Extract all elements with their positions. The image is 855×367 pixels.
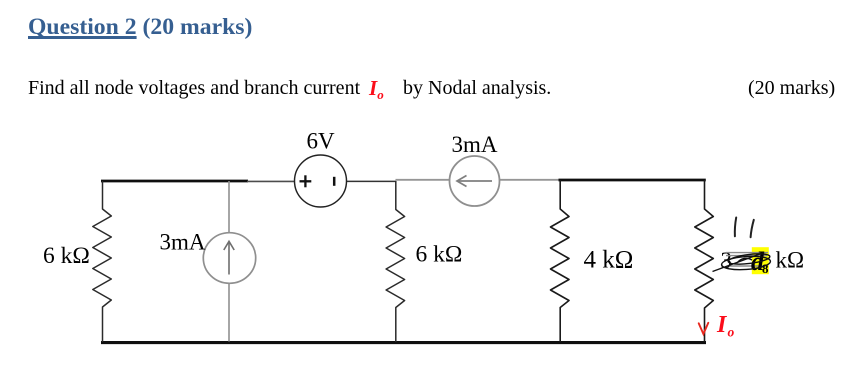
svg-text:6 kΩ: 6 kΩ — [43, 243, 90, 269]
svg-text:kΩ: kΩ — [776, 248, 805, 273]
wire: 6V source to node at middle resistor — [346, 180, 396, 182]
voltage source V1 6V — [295, 155, 347, 207]
svg-text:4 kΩ: 4 kΩ — [584, 247, 634, 274]
resistor R-mid 6k: middle branch — [386, 181, 405, 342]
red arrow head of Io — [699, 323, 709, 334]
tick mark 2 (hand drawn) — [751, 220, 754, 237]
gray strike lines — [726, 253, 768, 266]
svg-text:3mA: 3mA — [160, 230, 206, 255]
current source I2 3mA (arrow left) — [450, 156, 500, 206]
wire: gray segment to 6V source — [247, 180, 295, 182]
resistor R-left 6k: left branch — [93, 181, 112, 342]
svg-text:3mA: 3mA — [452, 132, 498, 157]
yellow highlight behind edited value — [752, 247, 769, 274]
wire: top-left thick black segment — [101, 180, 248, 183]
svg-text:o: o — [728, 325, 735, 340]
scribble loops — [713, 252, 771, 272]
(20 marks) right aligned — [748, 78, 835, 98]
svg-text:8: 8 — [762, 261, 769, 276]
heading: Question 2 (20 marks) — [28, 15, 252, 39]
wire: gray segment 3mA source to right — [500, 179, 561, 181]
tick mark 1 (hand drawn) — [735, 218, 736, 237]
current source I1 3mA (arrow up) — [203, 233, 255, 284]
svg-text:6 kΩ: 6 kΩ — [416, 242, 463, 268]
svg-text:I: I — [716, 312, 728, 338]
svg-text:6V: 6V — [307, 128, 336, 153]
resistor R4 right branch — [695, 180, 714, 342]
minus mark of 6V source (vertical dash) — [333, 177, 336, 186]
by Nodal analysis — [403, 78, 551, 98]
wire: bottom thick black — [101, 341, 706, 344]
wire: gray segment node to 3mA source — [396, 179, 451, 181]
resistor R3 4k branch — [551, 180, 570, 342]
wire: 3mA up-source branch vertical gray — [228, 181, 230, 342]
wire: top-right thick black segment — [559, 179, 706, 182]
problem statement text — [28, 78, 360, 98]
plus sign of 6V source — [300, 175, 312, 187]
red Io inline — [369, 78, 384, 101]
